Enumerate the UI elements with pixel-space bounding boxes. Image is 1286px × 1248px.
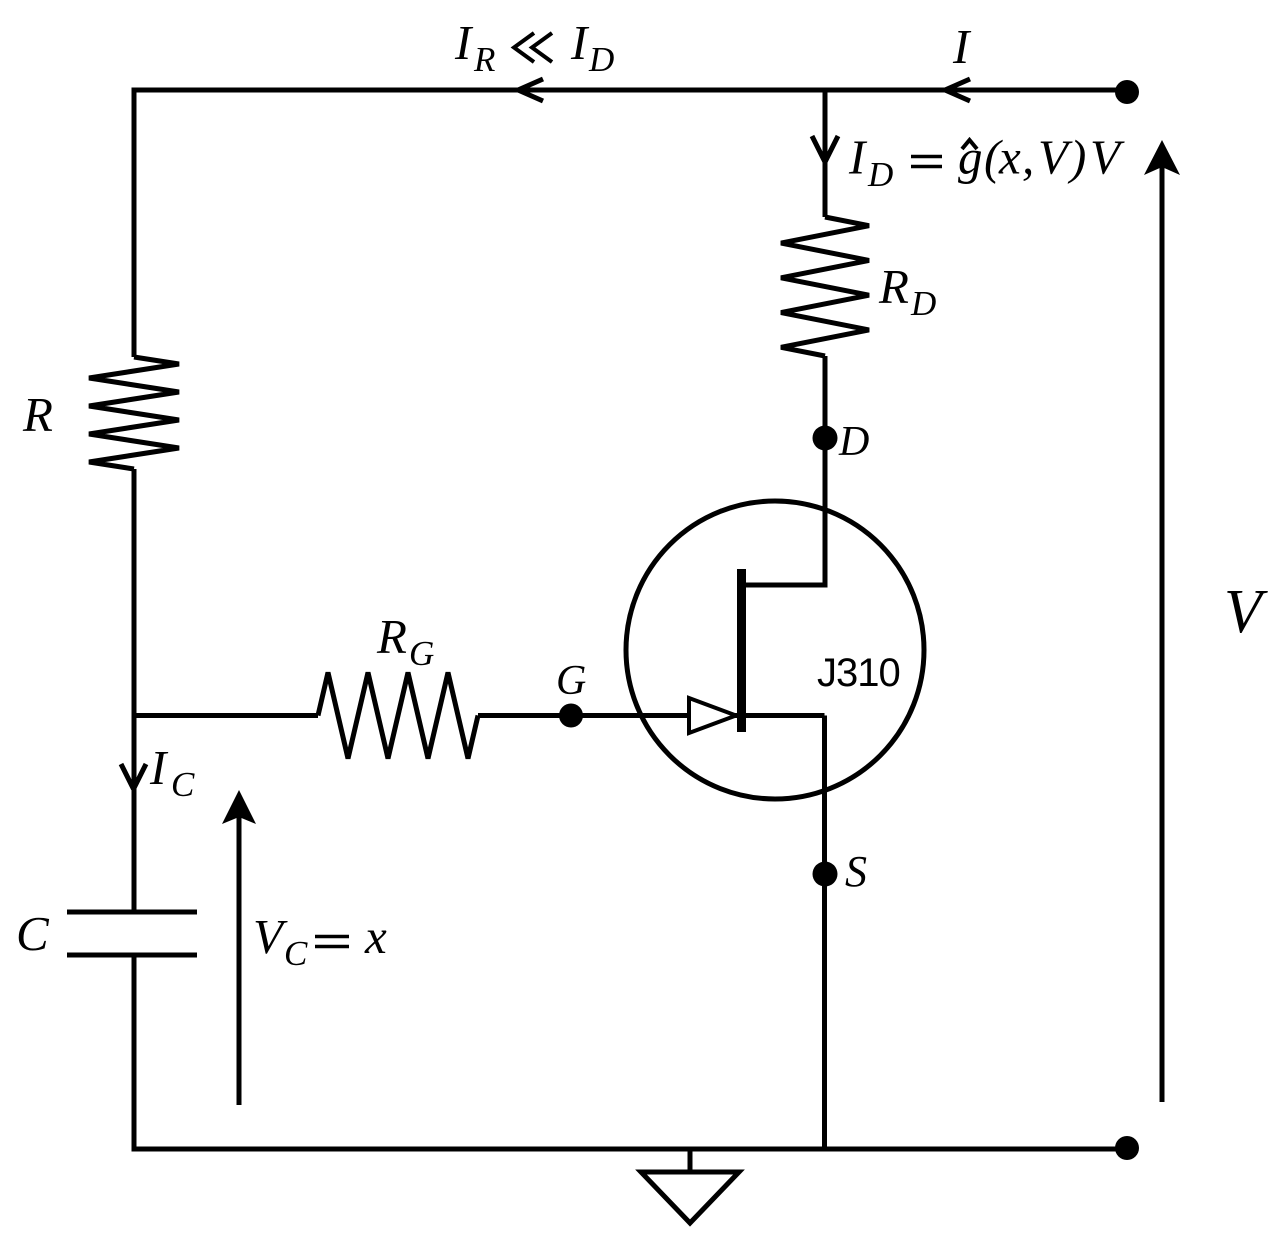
svg-text:D: D xyxy=(838,419,869,465)
svg-text:D: D xyxy=(910,284,936,323)
svg-text:R: R xyxy=(878,259,909,314)
svg-text:g: g xyxy=(958,130,983,185)
wire drain middle xyxy=(744,356,825,585)
svg-text:V: V xyxy=(1090,130,1125,185)
ground xyxy=(688,1149,693,1172)
svg-text:V: V xyxy=(1224,578,1268,646)
svg-text:D: D xyxy=(867,155,893,194)
svg-text:,: , xyxy=(1022,130,1034,185)
svg-text:I: I xyxy=(454,15,474,70)
svg-text:D: D xyxy=(588,40,614,79)
svg-text:I: I xyxy=(570,15,590,70)
transistor Q1 circle xyxy=(626,501,924,799)
svg-text:I: I xyxy=(952,19,972,74)
svg-text:S: S xyxy=(845,847,867,896)
svg-text:I: I xyxy=(848,130,868,185)
svg-text:x: x xyxy=(998,130,1021,185)
svg-text:R: R xyxy=(473,40,495,79)
svg-text:G: G xyxy=(556,658,586,704)
arrow I on top wire xyxy=(945,79,970,101)
transistor Q1 channel bar xyxy=(737,569,746,732)
arrow IR on top wire xyxy=(518,79,543,101)
svg-text:G: G xyxy=(409,634,434,673)
label ID = g(x,V)V xyxy=(848,130,1125,195)
wire gate left xyxy=(134,713,318,718)
label RG xyxy=(376,609,434,673)
resistor RD xyxy=(781,217,869,356)
svg-text:V: V xyxy=(1038,130,1073,185)
arrow ID on drain wire xyxy=(812,136,838,162)
arrow V xyxy=(1160,160,1165,1102)
transistor Q1 gate arrow xyxy=(689,698,736,733)
label RD xyxy=(878,259,936,323)
resistor R xyxy=(89,357,179,469)
wire gate right xyxy=(478,713,737,718)
resistor RG xyxy=(318,673,478,759)
svg-text:J310: J310 xyxy=(817,651,900,695)
node G xyxy=(559,704,583,728)
svg-text:R: R xyxy=(376,609,407,664)
node top-right xyxy=(1115,80,1139,104)
arrow VC=x xyxy=(237,812,242,1105)
node D xyxy=(813,426,838,451)
wire top xyxy=(134,88,1127,93)
wire left middle xyxy=(132,469,137,910)
svg-text:x: x xyxy=(364,909,387,964)
node S xyxy=(813,862,838,887)
capacitor C xyxy=(67,912,197,955)
svg-text:R: R xyxy=(22,387,53,442)
wire source xyxy=(744,716,825,1152)
label VC = x xyxy=(253,909,387,973)
svg-text:C: C xyxy=(16,906,50,961)
node bottom-right xyxy=(1115,1136,1139,1160)
svg-text:V: V xyxy=(253,909,288,964)
wire left upper xyxy=(132,88,137,358)
svg-text:C: C xyxy=(171,765,195,804)
svg-text:I: I xyxy=(149,740,169,795)
arrow IC on left wire xyxy=(121,764,146,789)
svg-text:): ) xyxy=(1067,130,1086,185)
label IR << ID xyxy=(454,15,614,79)
label IC xyxy=(149,740,195,804)
wire left lower xyxy=(132,958,137,1152)
wire bottom xyxy=(134,1147,1127,1152)
svg-text:C: C xyxy=(284,934,308,973)
wire drain upper xyxy=(823,90,828,217)
